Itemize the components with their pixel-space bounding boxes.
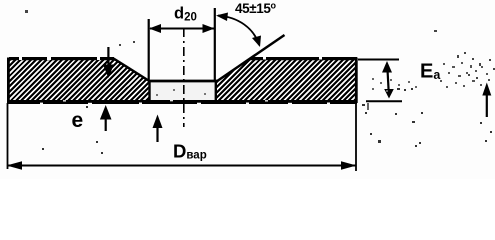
- svg-text:e: e: [72, 109, 84, 132]
- svg-text:Dвар: Dвар: [173, 141, 207, 162]
- svg-text:d20: d20: [174, 5, 197, 24]
- svg-text:Ea: Ea: [420, 61, 441, 83]
- svg-text:45±15o: 45±15o: [235, 1, 276, 17]
